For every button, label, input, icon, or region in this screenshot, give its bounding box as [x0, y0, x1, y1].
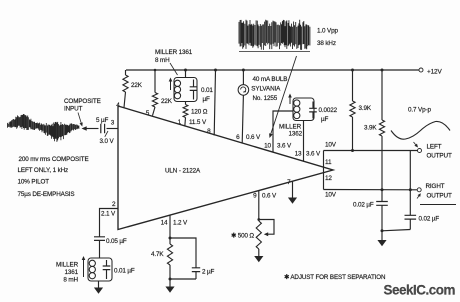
svg-text:3.0 V: 3.0 V: [100, 138, 115, 145]
ground G1: [94, 281, 103, 294]
wire pin 9: [258, 191, 260, 222]
svg-text:3.9K: 3.9K: [359, 105, 372, 112]
svg-text:0.01 µF: 0.01 µF: [114, 268, 135, 275]
voltage 3.0 V: [100, 131, 115, 145]
svg-text:13: 13: [295, 151, 302, 158]
junction bus/bulb: [242, 69, 245, 72]
composite input waveform art: [8, 114, 79, 142]
svg-text:✱ 500 Ω: ✱ 500 Ω: [231, 233, 254, 240]
svg-text:LEFT: LEFT: [427, 144, 442, 151]
svg-text:8 mH: 8 mH: [63, 277, 78, 284]
svg-text:10% PILOT: 10% PILOT: [18, 179, 50, 186]
svg-text:LEFT ONLY, 1 kHz: LEFT ONLY, 1 kHz: [18, 167, 69, 174]
svg-text:1.2 V: 1.2 V: [173, 220, 188, 227]
svg-text:38 kHz: 38 kHz: [317, 40, 336, 47]
svg-text:✱ ADJUST FOR BEST SEPARATION: ✱ ADJUST FOR BEST SEPARATION: [284, 274, 385, 281]
resistor R3 120 Ω: [183, 102, 208, 127]
svg-text:ULN - 2122A: ULN - 2122A: [165, 168, 201, 175]
inductor L3 Miller 1361 tank coil: [56, 256, 112, 284]
svg-text:3.6 V: 3.6 V: [306, 151, 321, 158]
junction R4/left rail: [351, 149, 354, 152]
terminal +12V: [419, 68, 423, 72]
junction bus/R2: [154, 69, 157, 72]
lamp DS1 40 mA bulb: [238, 70, 287, 143]
junction bus/R5: [381, 69, 384, 72]
junction pin14 top: [169, 237, 172, 240]
capacitor C4 0.05 µF: [94, 237, 127, 258]
op-amp U1 ULN-2122A: [118, 106, 333, 230]
svg-text:MILLER: MILLER: [279, 124, 302, 131]
junction pin14 bottom: [169, 278, 172, 281]
terminal RIGHT OUTPUT: [417, 188, 421, 192]
wire pin 10 to L2: [273, 111, 293, 152]
junction C7 bottom: [381, 229, 384, 232]
svg-text:22K: 22K: [131, 82, 143, 89]
svg-text:14: 14: [161, 220, 168, 227]
svg-text:0.01: 0.01: [201, 87, 213, 94]
svg-text:0.6 V: 0.6 V: [262, 193, 277, 200]
svg-text:0.6 V: 0.6 V: [246, 134, 261, 141]
svg-text:2.1 V: 2.1 V: [101, 211, 116, 218]
label COMPOSITE INPUT: [64, 98, 101, 127]
resistor R4 3.9K: [350, 70, 372, 151]
capacitor C1 0.01 µF: [190, 80, 214, 104]
svg-text:1.0 Vpp: 1.0 Vpp: [317, 28, 338, 35]
inductor L1 Miller 1361 tank coil: [155, 49, 197, 102]
svg-text:SYLVANIA: SYLVANIA: [251, 86, 281, 93]
svg-text:OUTPUT: OUTPUT: [427, 193, 452, 200]
svg-text:22K: 22K: [161, 98, 173, 105]
svg-text:11: 11: [325, 159, 332, 166]
svg-text:12: 12: [325, 175, 332, 182]
svg-text:3.6 V: 3.6 V: [277, 143, 292, 150]
svg-text:INPUT: INPUT: [64, 106, 83, 113]
svg-text:µF: µF: [203, 96, 211, 103]
wire pin 7: [292, 182, 294, 198]
svg-text:4.7K: 4.7K: [151, 251, 164, 258]
capacitor C8 0.02 µF: [382, 190, 439, 231]
svg-text:0.02 µF: 0.02 µF: [419, 216, 440, 223]
svg-text:MILLER 1361: MILLER 1361: [155, 49, 193, 56]
ground G3: [254, 256, 263, 262]
wire pin 2: [100, 209, 119, 237]
junction bus/L1: [184, 69, 187, 72]
svg-text:OUTPUT: OUTPUT: [427, 153, 452, 160]
wire pin 13 to L2 bottom: [303, 121, 305, 162]
38 kHz burst waveform: [239, 20, 310, 52]
wire left output rail: [324, 150, 418, 152]
wire pin 8 to +12V: [214, 70, 215, 136]
capacitor C5 0.01 µF: [103, 260, 135, 279]
junction bus/R4: [351, 69, 354, 72]
sine wave 0.7 Vp-p: [391, 107, 450, 140]
annotation text block: [18, 156, 89, 198]
potentiometer R7 500 Ω: [231, 218, 274, 256]
svg-text:10: 10: [264, 143, 271, 150]
resistor R6 4.7K: [151, 238, 173, 279]
svg-text:0.7 Vp-p: 0.7 Vp-p: [408, 107, 431, 114]
svg-text:3: 3: [111, 120, 115, 127]
resistor R1 22K: [123, 70, 143, 108]
wire input to pin 3: [82, 126, 119, 131]
svg-text:1361: 1361: [64, 269, 78, 276]
svg-text:RIGHT: RIGHT: [426, 183, 445, 190]
junction bus/pin8 wire: [214, 69, 217, 72]
svg-text:7: 7: [287, 179, 291, 186]
capacitor C2 0.0022 µF: [309, 102, 337, 123]
junction right rail / C7: [381, 188, 384, 191]
label LEFT OUTPUT: [414, 142, 452, 160]
leader arrow burst to pin 10: [269, 56, 296, 138]
wire right output rail: [324, 189, 418, 191]
svg-text:200 mv rms COMPOSITE: 200 mv rms COMPOSITE: [19, 156, 89, 163]
svg-text:75µs DE-EMPHASIS: 75µs DE-EMPHASIS: [18, 191, 75, 198]
svg-text:120 Ω: 120 Ω: [191, 109, 208, 116]
wire +12V top supply bus: [126, 69, 419, 71]
ground G4: [288, 198, 297, 204]
wire pin 14: [169, 215, 171, 239]
svg-text:10V: 10V: [325, 192, 337, 199]
svg-text:0.05 µF: 0.05 µF: [106, 238, 127, 245]
capacitor C3 5 µF: [96, 117, 109, 133]
svg-text:8 mH: 8 mH: [155, 57, 170, 64]
terminal LEFT OUTPUT: [418, 149, 422, 153]
svg-text:3.9K: 3.9K: [364, 125, 377, 132]
resistor R5 3.9K: [364, 70, 385, 190]
svg-text:No. 1255: No. 1255: [253, 95, 278, 102]
ground G2: [165, 279, 174, 293]
svg-text:6: 6: [236, 134, 240, 141]
svg-text:MILLER: MILLER: [56, 262, 79, 269]
svg-text:40 mA BULB: 40 mA BULB: [253, 76, 288, 83]
svg-text:5 µF: 5 µF: [96, 117, 109, 124]
svg-text:SeekIC.com: SeekIC.com: [384, 283, 456, 298]
svg-text:0.02 µF: 0.02 µF: [353, 202, 374, 209]
capacitor C6 2 µF: [170, 238, 215, 279]
svg-text:10V: 10V: [325, 142, 337, 149]
wire cap C8 drop: [409, 151, 411, 190]
svg-text:1362: 1362: [289, 131, 303, 138]
svg-text:COMPOSITE: COMPOSITE: [64, 98, 101, 105]
resistor R2 22K: [152, 70, 172, 116]
svg-text:2 µF: 2 µF: [202, 269, 215, 276]
ground G5: [377, 240, 386, 246]
label RIGHT OUTPUT: [417, 183, 456, 205]
svg-text:0.0022: 0.0022: [319, 107, 338, 114]
svg-text:+12V: +12V: [427, 69, 442, 76]
junction right rail / C8: [409, 188, 412, 191]
capacitor C7 0.02 µF: [353, 190, 388, 233]
wire output bracket pins 11/12: [323, 151, 325, 190]
svg-text:µF: µF: [321, 116, 329, 123]
inductor L2 Miller 1362 tank coil: [279, 94, 314, 138]
svg-text:9: 9: [253, 193, 257, 200]
svg-text:11.5 V: 11.5 V: [189, 119, 207, 126]
svg-text:2: 2: [112, 201, 116, 208]
